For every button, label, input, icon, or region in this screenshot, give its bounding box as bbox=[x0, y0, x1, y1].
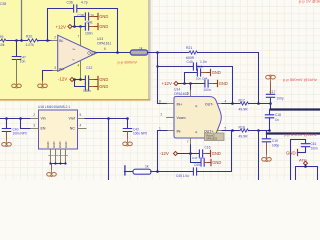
svg-text:2: 2 bbox=[161, 113, 163, 117]
wire: R10 to IN- pin bbox=[38, 40, 51, 42]
wire: terminal to 1k bbox=[125, 171, 134, 173]
highlighted region (yellow) bbox=[0, 0, 148, 99]
node: C41b tap junction bbox=[5, 117, 8, 120]
node: rail drop junction bbox=[231, 129, 234, 132]
svg-text:100n: 100n bbox=[83, 89, 91, 93]
ground flower at IN+ bbox=[38, 81, 48, 88]
node: C40 tee junction bbox=[156, 65, 158, 67]
wire: C38 to GND bbox=[89, 16, 97, 18]
svg-text:10k: 10k bbox=[0, 43, 5, 47]
node: C40 drop junction bbox=[231, 102, 234, 105]
wire: C16 to GND bbox=[203, 153, 210, 155]
ground flower under C41b bbox=[2, 139, 12, 146]
node: -12V tee to pin 4 bbox=[79, 78, 82, 81]
svg-text:U13: U13 bbox=[97, 37, 103, 41]
svg-text:C35: C35 bbox=[0, 2, 6, 6]
svg-text:100n: 100n bbox=[311, 146, 318, 150]
svg-text:IN+: IN+ bbox=[177, 103, 183, 107]
svg-text:5: 5 bbox=[225, 126, 227, 130]
wire: op-amp output bbox=[96, 52, 130, 54]
svg-text:IN-: IN- bbox=[59, 39, 64, 43]
wire: feedback top right + drop to output bbox=[78, 9, 118, 53]
svg-text:C18: C18 bbox=[275, 113, 281, 117]
ground flower under regulator bbox=[47, 169, 57, 176]
wire: up-tee C43 row bbox=[185, 73, 198, 84]
wire: C47b to GND bbox=[204, 162, 210, 164]
resistor R10 1.07k bbox=[28, 39, 38, 42]
wire: C40 to OUT- drop bbox=[197, 67, 233, 104]
grid (decorative) bbox=[0, 0, 320, 180]
wire: long vertical to bottom edge bbox=[108, 119, 110, 181]
svg-text:OUT-: OUT- bbox=[205, 103, 214, 107]
node: IN+ net junction bbox=[156, 51, 159, 54]
svg-text:2: 2 bbox=[33, 113, 35, 117]
svg-text:p-p 560mV @1kHz: p-p 560mV @1kHz bbox=[283, 77, 317, 82]
capacitor C42 100n NP0 bbox=[123, 129, 131, 132]
wire: R21 to OUT- drop bbox=[198, 53, 259, 104]
node: -12V junction bbox=[189, 152, 192, 155]
capacitor C16 100n bbox=[199, 150, 202, 157]
ground bar C47b bbox=[208, 159, 222, 165]
svg-text:R18: R18 bbox=[239, 126, 245, 130]
resistor 1k chip body (bottom) bbox=[133, 169, 151, 174]
svg-text:C47 100n: C47 100n bbox=[192, 156, 205, 160]
svg-text:4: 4 bbox=[225, 100, 227, 104]
capacitor C47 10n bbox=[12, 57, 20, 60]
svg-text:100n: 100n bbox=[204, 88, 211, 92]
svg-text:C45: C45 bbox=[194, 163, 200, 167]
pin 3 lead V+ bbox=[190, 84, 192, 91]
node: -12V tee to C13 row bbox=[73, 78, 76, 81]
svg-text:C19: C19 bbox=[272, 139, 278, 143]
capacitor C36 4.7p series feedback bbox=[74, 5, 77, 12]
node: IN- drop junction bbox=[156, 170, 159, 173]
wire: bottom-right U loop bbox=[296, 167, 318, 181]
capacitor C45 1.0u series bbox=[193, 168, 196, 175]
pin 7 lead bbox=[80, 27, 82, 45]
wire: down-tee C13 row bbox=[75, 80, 86, 87]
capacitor C44 100n bbox=[205, 80, 208, 87]
pin NC stub bbox=[78, 128, 87, 130]
resistor 1k chip body bbox=[130, 50, 147, 55]
svg-text:C61: C61 bbox=[311, 142, 317, 146]
capacitor C47b 100n bbox=[201, 159, 204, 166]
svg-text:10n: 10n bbox=[20, 59, 26, 63]
wire: right lower loop bbox=[291, 140, 306, 181]
wire: IN+ vertical net bbox=[157, 53, 159, 104]
node: vertical drop junction bbox=[107, 117, 110, 120]
wire: OUT- to port stub bbox=[270, 104, 272, 110]
op-amp U14 OPA1632 fully differential bbox=[174, 97, 221, 139]
wire: +12 rail into Vin bbox=[0, 118, 31, 120]
svg-text:100p: 100p bbox=[277, 97, 284, 101]
svg-text:IN+: IN+ bbox=[59, 67, 64, 71]
svg-text:7: 7 bbox=[78, 35, 80, 39]
node: C47 tap junction bbox=[15, 39, 18, 42]
node: C42 junction bbox=[126, 117, 129, 120]
wire: Vref output rail bbox=[78, 118, 86, 120]
pin 4 lead bbox=[80, 62, 82, 80]
svg-text:-12V: -12V bbox=[160, 151, 169, 156]
wire: IN+ to ground bbox=[52, 70, 58, 72]
svg-text:7: 7 bbox=[187, 140, 189, 144]
wire: input net from top edge (gray) bbox=[21, 0, 23, 40]
ground flower above C17 bbox=[266, 75, 276, 82]
ground bar C43 bbox=[207, 69, 221, 75]
svg-text:p-p 800mV: p-p 800mV bbox=[118, 59, 138, 64]
ground bar C16 bbox=[207, 150, 221, 156]
svg-text:IN-: IN- bbox=[177, 130, 183, 134]
svg-text:Vocm: Vocm bbox=[177, 116, 186, 120]
svg-text:U16 LM4040AIM5-2.1: U16 LM4040AIM5-2.1 bbox=[38, 105, 70, 109]
node: +12V tee to C38 bbox=[73, 25, 76, 28]
capacitor C17 100p to gnd bbox=[270, 98, 272, 103]
capacitor C61 100n bbox=[305, 140, 307, 143]
svg-text:R10: R10 bbox=[26, 35, 32, 39]
node: +12V tee to pin 7 bbox=[79, 25, 82, 28]
svg-text:4: 4 bbox=[78, 64, 80, 68]
node: output feedback junction bbox=[116, 51, 119, 54]
svg-text:GND: GND bbox=[286, 151, 296, 156]
port OUT+ thick line bbox=[267, 132, 320, 134]
wire: OUT- out bbox=[217, 103, 222, 105]
wire: ground bus under regulator bbox=[51, 163, 66, 165]
svg-text:GND: GND bbox=[58, 142, 62, 148]
svg-text:1.0n: 1.0n bbox=[200, 60, 207, 64]
svg-text:49.9R: 49.9R bbox=[239, 108, 249, 112]
wire: +12V rail bbox=[72, 26, 85, 28]
node: OUT+ output node bbox=[268, 129, 271, 132]
svg-text:2: 2 bbox=[54, 36, 56, 40]
svg-text:R17: R17 bbox=[239, 99, 245, 103]
svg-text:1k: 1k bbox=[139, 46, 143, 50]
wire: C44 to GND bbox=[208, 83, 216, 85]
svg-text:4: 4 bbox=[80, 124, 82, 128]
svg-text:p-p 3.3mV @1kHz: p-p 3.3mV @1kHz bbox=[284, 132, 317, 137]
node: tee to pin 3 bbox=[189, 82, 192, 85]
capacitor C19 100p to gnd bbox=[266, 131, 268, 138]
capacitor C12 100n bbox=[85, 76, 88, 83]
svg-text:C43: C43 bbox=[197, 65, 203, 69]
svg-text:C36: C36 bbox=[67, 0, 73, 4]
svg-text:8: 8 bbox=[159, 100, 161, 104]
node: R21 drop junction bbox=[257, 102, 260, 105]
capacitor C40 1.0n series feedback bbox=[193, 63, 196, 70]
pin Vocm stub bbox=[167, 117, 175, 119]
wire: C45 to OUT+ feedback drop bbox=[197, 131, 232, 172]
svg-text:100p: 100p bbox=[272, 144, 279, 148]
svg-text:C38: C38 bbox=[78, 13, 84, 17]
node: tee to C43 row bbox=[183, 82, 186, 85]
svg-text:100n: 100n bbox=[85, 32, 93, 36]
wire: 1k to OPA1632 input node bbox=[148, 52, 190, 54]
ground flower under C19 bbox=[262, 154, 272, 161]
capacitor C38 1n bbox=[85, 13, 88, 20]
wire: C12 to GND bbox=[89, 79, 97, 81]
svg-text:6: 6 bbox=[104, 47, 106, 51]
svg-text:100n NP0: 100n NP0 bbox=[13, 132, 27, 136]
wire: R17 to OUT- node bbox=[249, 103, 271, 105]
wire: bottom rail terminal bar bbox=[124, 166, 126, 175]
wire: down-tee C47b row bbox=[191, 154, 201, 163]
node: feedback tap junction bbox=[46, 39, 49, 42]
svg-text:4.7p: 4.7p bbox=[81, 0, 88, 4]
wire: IN+ stub bbox=[158, 103, 168, 105]
resistor R17 49.9R bbox=[240, 102, 249, 105]
ground bar C41 bbox=[95, 23, 109, 29]
node: OUT- output node bbox=[269, 102, 272, 105]
svg-text:GND: GND bbox=[52, 142, 56, 148]
svg-text:R9: R9 bbox=[0, 35, 3, 39]
wire: C40 branch bbox=[158, 66, 194, 68]
wire: +12V rail at U14 bbox=[178, 83, 205, 85]
op-amp U13 OPA1611 bbox=[58, 35, 97, 71]
wire: IN- stub, drop to bottom rail bbox=[167, 130, 174, 132]
node: top-net junction bbox=[20, 39, 23, 42]
svg-text:OPA1611: OPA1611 bbox=[97, 41, 111, 45]
svg-text:1: 1 bbox=[159, 126, 161, 130]
svg-text:3: 3 bbox=[187, 92, 189, 96]
svg-text:1.07k: 1.07k bbox=[26, 43, 35, 47]
ground bar C44 bbox=[214, 80, 228, 86]
svg-text:OPA1632: OPA1632 bbox=[206, 137, 218, 141]
svg-text:v+: v+ bbox=[73, 47, 76, 51]
resistor R21 600R feedback bbox=[189, 51, 198, 54]
svg-text:GND: GND bbox=[64, 142, 68, 148]
capacitor C41 100n bbox=[85, 23, 88, 30]
wire: C42 branch bbox=[127, 119, 129, 128]
svg-text:3: 3 bbox=[33, 124, 35, 128]
capacitor C18 1n between outputs bbox=[269, 110, 271, 114]
svg-text:-12V: -12V bbox=[58, 77, 67, 82]
port OUT- thick line bbox=[271, 108, 320, 110]
svg-text:C40: C40 bbox=[187, 60, 193, 64]
svg-text:+12V: +12V bbox=[162, 81, 172, 86]
wire: C43 to GND bbox=[201, 72, 210, 74]
svg-text:Vin: Vin bbox=[41, 117, 46, 121]
svg-text:p-p 1V @1kHz: p-p 1V @1kHz bbox=[299, 0, 320, 3]
wire: C13 to GND bbox=[89, 86, 97, 88]
svg-text:5: 5 bbox=[80, 113, 82, 117]
wire: rail to C45 bbox=[151, 171, 194, 173]
capacitor C43 10n bbox=[197, 69, 200, 76]
svg-text:C45 1.0u: C45 1.0u bbox=[176, 174, 189, 178]
wire: up-tee C38 row bbox=[75, 17, 86, 27]
svg-text:v-: v- bbox=[73, 58, 75, 62]
wire: R18 to OUT+ node bbox=[249, 130, 270, 132]
node: label junction bbox=[304, 165, 307, 168]
wire: EN link bbox=[21, 119, 31, 129]
ground bar C38 bbox=[95, 13, 109, 19]
capacitor C13 10n bbox=[85, 83, 88, 90]
svg-text:49.9R: 49.9R bbox=[239, 134, 249, 138]
wire: feedback loop left/top bbox=[48, 9, 73, 41]
ground flower under C47 bbox=[12, 81, 22, 88]
svg-text:C12: C12 bbox=[86, 66, 92, 70]
wire: vertical exit to bottom edge bbox=[258, 131, 260, 181]
wire: C47 branch bbox=[16, 41, 18, 56]
svg-text:Vref: Vref bbox=[69, 117, 75, 121]
svg-text:3: 3 bbox=[54, 66, 56, 70]
svg-text:1k: 1k bbox=[145, 164, 149, 168]
svg-text:NC: NC bbox=[70, 127, 76, 131]
wire: C41b branch bbox=[6, 119, 8, 128]
wire: -12V rail at U14 bbox=[177, 153, 199, 155]
svg-text:C16: C16 bbox=[205, 146, 211, 150]
wire: OUT+ out bbox=[217, 130, 222, 132]
svg-text:R21: R21 bbox=[186, 46, 192, 50]
svg-text:EN: EN bbox=[41, 127, 46, 131]
tooltip gray box bbox=[205, 133, 225, 141]
wire: C41 to GND bbox=[89, 26, 97, 28]
svg-text:C41: C41 bbox=[87, 20, 93, 24]
resistor R18 49.9R bbox=[240, 129, 249, 132]
ground flower under C42 bbox=[123, 139, 133, 146]
node: drop-down junction bbox=[257, 129, 260, 132]
svg-text:100n NP0: 100n NP0 bbox=[133, 132, 147, 136]
svg-text:10n C44: 10n C44 bbox=[196, 77, 208, 81]
svg-text:+12V: +12V bbox=[56, 24, 66, 29]
ground bar C13 bbox=[95, 83, 109, 89]
pin 7 lead V- bbox=[190, 138, 192, 145]
ground bar C12 bbox=[95, 76, 109, 82]
resistor R9 10k (cut at left edge) bbox=[0, 39, 7, 42]
svg-text:OUT: OUT bbox=[87, 51, 96, 56]
wire: input to R10 bbox=[7, 40, 27, 42]
svg-text:GND: GND bbox=[46, 142, 50, 148]
capacitor C41b 100n NP0 bbox=[2, 129, 10, 132]
node: EN tap junction bbox=[19, 117, 22, 120]
wire: -12V rail bbox=[74, 79, 85, 81]
svg-text:1n: 1n bbox=[275, 118, 279, 122]
IC U16 regulator box bbox=[39, 110, 78, 149]
regulator bottom pin leads bbox=[51, 149, 66, 164]
